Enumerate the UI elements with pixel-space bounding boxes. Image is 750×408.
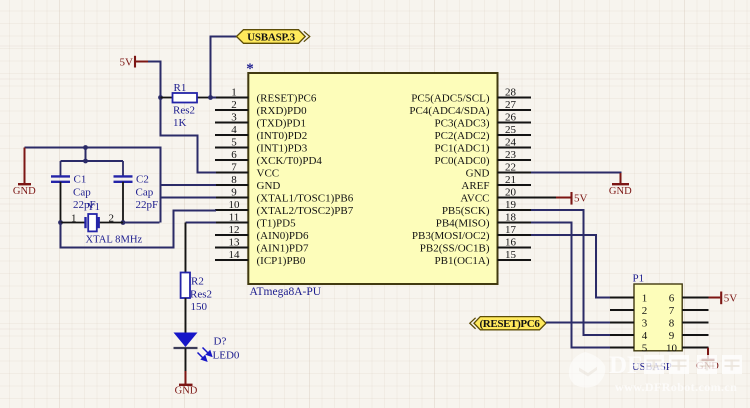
capacitor C1 top lead — [60, 161, 62, 176]
pin 1 stub (left) — [215, 97, 248, 99]
P1 pin 8 stub — [682, 322, 708, 324]
svg-text:PC3(ADC3): PC3(ADC3) — [434, 117, 489, 129]
svg-text:Res2: Res2 — [190, 288, 212, 300]
svg-text:4: 4 — [642, 330, 648, 342]
wire R1 to pin 1 — [211, 97, 217, 99]
svg-text:(AIN1)PD7: (AIN1)PD7 — [257, 242, 309, 254]
pin 14 stub (left) — [215, 259, 248, 261]
pin 25 stub (right) — [498, 134, 532, 136]
wire pin 22 GND net — [531, 173, 621, 182]
svg-text:11: 11 — [229, 212, 240, 224]
svg-text:3: 3 — [642, 317, 648, 329]
svg-text:(ICP1)PB0: (ICP1)PB0 — [257, 255, 306, 267]
port USBASP.3 — [237, 30, 306, 44]
crystal Y1 body — [88, 214, 97, 231]
svg-text:6: 6 — [669, 292, 675, 304]
connector P1 body — [634, 284, 682, 351]
svg-text:5V: 5V — [724, 293, 738, 305]
svg-text:PC2(ADC2): PC2(ADC2) — [434, 130, 489, 142]
svg-text:21: 21 — [505, 174, 516, 186]
svg-text:C2: C2 — [136, 173, 149, 185]
svg-text:PC0(ADC0): PC0(ADC0) — [434, 155, 489, 167]
svg-text:2: 2 — [109, 212, 115, 224]
resistor R2 body — [181, 273, 190, 299]
svg-text:150: 150 — [191, 301, 208, 313]
svg-text:24: 24 — [505, 137, 517, 149]
capacitor C2 bottom lead — [122, 182, 124, 223]
svg-text:(XCK/T0)PD4: (XCK/T0)PD4 — [257, 155, 323, 167]
svg-text:GND: GND — [466, 167, 490, 179]
junction cap rail — [83, 159, 88, 164]
pin 9 stub (left) — [215, 197, 248, 199]
svg-text:(T1)PD5: (T1)PD5 — [257, 217, 297, 229]
svg-text:5: 5 — [231, 137, 237, 149]
svg-text:25: 25 — [505, 124, 517, 136]
svg-text:C1: C1 — [74, 173, 87, 185]
svg-text:(INT0)PD2: (INT0)PD2 — [257, 130, 308, 142]
pin 28 stub (right) — [498, 97, 532, 99]
svg-text:GND: GND — [175, 385, 198, 396]
wire C1 bottom to XTAL2 pin 10 — [61, 211, 217, 248]
svg-text:P1: P1 — [633, 273, 645, 285]
pin 21 stub (right) — [498, 184, 532, 186]
pin 2 stub (left) — [215, 109, 248, 111]
pin 10 stub (left) — [215, 209, 248, 211]
svg-text:10: 10 — [666, 342, 678, 354]
svg-text:8: 8 — [669, 317, 675, 329]
power port 5V (P1 pin 6) — [709, 292, 722, 305]
svg-text:3: 3 — [231, 112, 237, 124]
svg-text:GND: GND — [257, 180, 281, 192]
pin 24 stub (right) — [498, 147, 532, 149]
svg-text:22: 22 — [505, 162, 516, 174]
svg-text:USBASP.3: USBASP.3 — [247, 32, 296, 44]
svg-text:12: 12 — [229, 224, 240, 236]
svg-text:27: 27 — [505, 99, 517, 111]
pin 4 stub (left) — [215, 134, 248, 136]
svg-text:10: 10 — [229, 199, 241, 211]
svg-text:1K: 1K — [173, 117, 187, 129]
power port 5V (AVCC) — [556, 192, 572, 205]
watermark url line — [615, 380, 737, 394]
pin 15 stub (right) — [498, 259, 532, 261]
IC U1 ATmega8A-PU microcontroller body — [248, 73, 497, 284]
wire riser to USBASP.3 port — [211, 37, 238, 99]
svg-text:2: 2 — [231, 99, 237, 111]
svg-text:1: 1 — [231, 87, 237, 99]
ground GND (pin 22) — [612, 173, 629, 184]
svg-text:LED0: LED0 — [213, 350, 240, 362]
svg-text:22pF: 22pF — [136, 199, 159, 211]
svg-text:ATmega8A-PU: ATmega8A-PU — [250, 286, 322, 298]
svg-text:www.DFRobot.com.cn: www.DFRobot.com.cn — [615, 380, 737, 394]
svg-text:19: 19 — [505, 199, 517, 211]
P1 pin 7 stub — [682, 309, 708, 311]
svg-text:(INT1)PD3: (INT1)PD3 — [257, 142, 308, 154]
ground GND (LED) — [179, 371, 193, 385]
svg-text:PC4(ADC4/SDA): PC4(ADC4/SDA) — [409, 105, 489, 117]
svg-text:2: 2 — [642, 305, 648, 317]
pin 23 stub (right) — [498, 159, 532, 161]
watermark text DF*** line — [609, 352, 642, 379]
svg-text:7: 7 — [231, 162, 237, 174]
pin 6 stub (left) — [215, 159, 248, 161]
svg-text:26: 26 — [505, 112, 517, 124]
pin 20 stub (right) — [498, 197, 532, 199]
svg-text:VCC: VCC — [257, 167, 280, 179]
pin 7 stub (left) — [215, 172, 248, 174]
svg-text:(RXD)PD0: (RXD)PD0 — [257, 105, 308, 117]
wire pin 8 GND branch — [161, 184, 217, 186]
pin 8 stub (left) — [215, 184, 248, 186]
svg-text:(RESET)PC6: (RESET)PC6 — [479, 318, 540, 330]
svg-text:(XTAL1/TOSC1)PB6: (XTAL1/TOSC1)PB6 — [257, 192, 354, 204]
svg-text:PB2(SS/OC1B): PB2(SS/OC1B) — [420, 242, 490, 254]
svg-text:(RESET)PC6: (RESET)PC6 — [257, 92, 317, 104]
ground GND (left) — [18, 148, 31, 185]
svg-text:DF: DF — [609, 352, 642, 379]
svg-text:(AIN0)PD6: (AIN0)PD6 — [257, 230, 309, 242]
pin 17 stub (right) — [498, 234, 532, 236]
svg-text:Cap: Cap — [136, 186, 154, 198]
svg-text:Res2: Res2 — [173, 105, 195, 117]
svg-text:16: 16 — [505, 237, 517, 249]
crystal Y1 right lead — [100, 222, 123, 224]
svg-text:13: 13 — [229, 237, 241, 249]
svg-text:5V: 5V — [574, 192, 588, 204]
capacitor C1 bottom lead — [60, 182, 62, 223]
svg-text:PB5(SCK): PB5(SCK) — [442, 205, 490, 217]
svg-text:4: 4 — [231, 124, 237, 136]
junction C2 / crystal — [121, 220, 126, 225]
svg-text:AVCC: AVCC — [460, 192, 489, 204]
wire crystal right to pin 9 riser — [123, 222, 160, 224]
svg-text:7: 7 — [669, 305, 675, 317]
svg-text:1: 1 — [642, 292, 648, 304]
wire P1 pin 10 to GND — [702, 348, 715, 360]
resistor R1 body — [173, 93, 198, 103]
svg-text:*: * — [246, 61, 254, 77]
watermark logo — [569, 352, 605, 388]
P1 pin 2 stub — [610, 309, 634, 311]
pin 12 stub (left) — [215, 234, 248, 236]
pin 18 stub (right) — [498, 222, 532, 224]
capacitor C1 plates — [51, 175, 70, 177]
svg-text:R1: R1 — [174, 82, 187, 94]
svg-text:8: 8 — [231, 174, 237, 186]
wire pin 18 MISO to P1 pin 5 — [531, 223, 611, 348]
wire pin 11 branch — [186, 222, 217, 224]
wire 5V net down to VCC pin 7 — [161, 98, 217, 173]
svg-text:(XTAL2/TOSC2)PB7: (XTAL2/TOSC2)PB7 — [257, 205, 354, 217]
svg-text:GND: GND — [609, 186, 632, 197]
svg-text:14: 14 — [229, 249, 241, 261]
svg-text:28: 28 — [505, 87, 517, 99]
wire 5V to R1 junction — [148, 62, 161, 98]
svg-text:18: 18 — [505, 212, 517, 224]
LED emission arrows — [198, 348, 212, 361]
svg-text:Cap: Cap — [73, 186, 91, 198]
wire pin 20 AVCC to 5V — [498, 197, 557, 199]
wire cap top rail — [61, 160, 124, 162]
P1 pin 6 stub — [682, 297, 708, 299]
svg-text:(TXD)PD1: (TXD)PD1 — [257, 117, 307, 129]
pin 27 stub (right) — [498, 109, 532, 111]
svg-text:5V: 5V — [120, 56, 134, 68]
svg-text:AREF: AREF — [461, 180, 489, 192]
svg-text:Y1: Y1 — [87, 202, 100, 213]
P1 pin 1 stub — [610, 297, 634, 299]
crystal Y1 electrodes — [84, 217, 86, 228]
P1 pin 10 stub — [682, 347, 708, 349]
svg-text:6: 6 — [231, 149, 237, 161]
pin 13 stub (left) — [215, 247, 248, 249]
wire GND rail — [25, 148, 161, 223]
P1 pin 9 stub — [682, 334, 708, 336]
wire pin 19 SCK to P1 pin 4 — [531, 210, 611, 335]
P1 pin 4 stub — [610, 334, 634, 336]
svg-text:PC5(ADC5/SCL): PC5(ADC5/SCL) — [411, 92, 490, 104]
wire pin 17 MOSI to P1 pin 1 — [531, 235, 611, 298]
diode D? LED0 — [174, 333, 198, 348]
svg-text:17: 17 — [505, 224, 517, 236]
pin 26 stub (right) — [498, 122, 532, 124]
svg-text:GND: GND — [13, 186, 36, 197]
power port 5V (top left) — [135, 56, 148, 68]
junction at R1 right — [208, 95, 213, 100]
pin 19 stub (right) — [498, 209, 532, 211]
pin 5 stub (left) — [215, 147, 248, 149]
capacitor C2 top lead — [122, 161, 124, 176]
svg-text:PC1(ADC1): PC1(ADC1) — [434, 142, 489, 154]
svg-text:5: 5 — [642, 342, 648, 354]
junction at R1 left — [158, 95, 163, 100]
svg-text:PB4(MISO): PB4(MISO) — [436, 217, 490, 229]
wire tag to P1 pin 3 — [546, 322, 611, 324]
wire LED to GND — [185, 348, 187, 372]
net label (RESET)PC6 — [474, 317, 546, 330]
pin 3 stub (left) — [215, 122, 248, 124]
wire down to R2 — [185, 223, 187, 273]
junction C1 / crystal — [58, 220, 63, 225]
crystal Y1 left lead — [61, 222, 85, 224]
svg-text:15: 15 — [505, 249, 517, 261]
pin 11 stub (left) — [215, 222, 248, 224]
svg-text:23: 23 — [505, 149, 517, 161]
svg-text:XTAL 8MHz: XTAL 8MHz — [86, 235, 143, 246]
P1 pin 3 stub — [610, 322, 634, 324]
wire pin 9 XTAL1 branch — [161, 197, 217, 199]
wire R2 to LED — [185, 298, 187, 333]
svg-text:9: 9 — [669, 330, 675, 342]
junction GND rail / cap rail — [83, 145, 88, 150]
wire to cap top rail — [85, 148, 87, 162]
resistor R1 leads — [161, 97, 173, 99]
pin 16 stub (right) — [498, 247, 532, 249]
pin 22 stub (right) — [498, 172, 532, 174]
svg-text:PB3(MOSI/OC2): PB3(MOSI/OC2) — [412, 230, 490, 242]
svg-text:1: 1 — [71, 212, 77, 224]
svg-text:PB1(OC1A): PB1(OC1A) — [434, 255, 489, 267]
svg-text:R2: R2 — [191, 275, 204, 287]
P1 pin 5 stub — [610, 347, 634, 349]
capacitor C2 plates — [114, 175, 133, 177]
svg-text:9: 9 — [231, 187, 237, 199]
svg-text:D?: D? — [214, 335, 227, 347]
